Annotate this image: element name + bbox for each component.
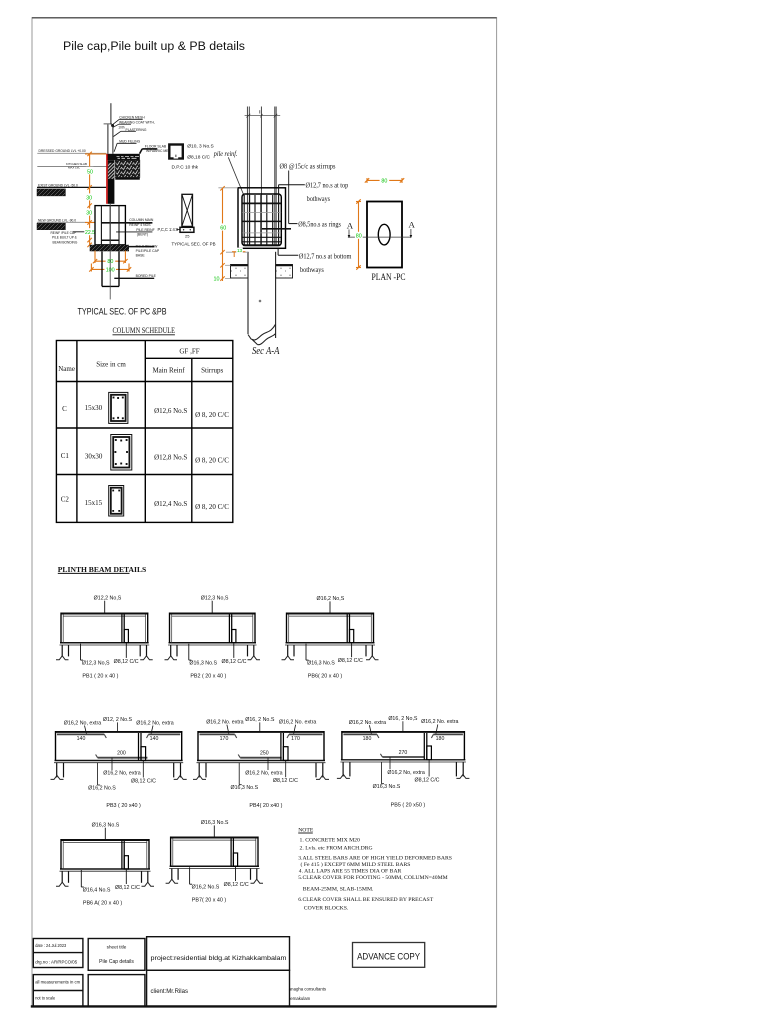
label pile reinf bent: [116, 228, 155, 237]
svg-text:Ø16,2 No, extra: Ø16,2 No, extra: [103, 771, 140, 777]
svg-text:80: 80: [356, 234, 362, 240]
svg-text:Ø8,18 C/C: Ø8,18 C/C: [187, 155, 210, 161]
svg-text:Ø12,7 no.s at top: Ø12,7 no.s at top: [306, 182, 349, 190]
svg-text:Ø16,3 No.S: Ø16,3 No.S: [92, 823, 120, 829]
svg-text:180: 180: [436, 736, 445, 742]
svg-text:BASE: BASE: [136, 253, 146, 257]
column schedule table grid: [56, 341, 232, 523]
svg-text:Pile Cap details: Pile Cap details: [99, 959, 134, 965]
svg-text:PLAN -PC: PLAN -PC: [372, 272, 406, 283]
pile cap top reinf leader: [101, 222, 152, 224]
label top bothways: [279, 182, 349, 204]
plan pc square: [367, 202, 402, 268]
svg-text:Name: Name: [58, 365, 75, 373]
label bored pile: [114, 274, 156, 278]
svg-text:TYPICAL SEC. OF PC &PB: TYPICAL SEC. OF PC &PB: [78, 306, 167, 317]
svg-text:pile reinf.: pile reinf.: [213, 151, 238, 158]
svg-text:D.P.C 10 thk: D.P.C 10 thk: [172, 165, 199, 171]
label wearing coat: [113, 120, 155, 127]
footing wing left: [231, 265, 249, 279]
title block date/drg box: [33, 937, 289, 1007]
label reinf pile cap bonding: [51, 231, 102, 245]
svg-text:COVER BLOCKS.: COVER BLOCKS.: [304, 906, 349, 912]
svg-text:PB2 ( 20 x 40 ): PB2 ( 20 x 40 ): [190, 674, 226, 680]
svg-text:Ø16,2 No.S: Ø16,2 No.S: [192, 885, 220, 891]
svg-text:all measurements in cm: all measurements in cm: [35, 980, 80, 985]
column section sketch C2: [109, 486, 124, 517]
dim 60 (sec A-A): [220, 186, 224, 281]
svg-text:PLINTH BEAM DETAILS: PLINTH BEAM DETAILS: [58, 565, 146, 574]
svg-text:A: A: [409, 220, 416, 230]
svg-text:PB1 ( 20 x 40 ): PB1 ( 20 x 40 ): [82, 674, 118, 680]
svg-text:Ø12,3 No,S: Ø12,3 No,S: [82, 661, 110, 667]
svg-text:Ø12,2 No,S: Ø12,2 No,S: [94, 596, 122, 602]
svg-text:REINF /PILE CAP: REINF /PILE CAP: [51, 231, 77, 235]
svg-text:270: 270: [399, 750, 408, 756]
svg-text:drg.no : AR/RPCO/05: drg.no : AR/RPCO/05: [35, 960, 77, 965]
svg-text:bothways: bothways: [300, 266, 324, 274]
svg-text:22.5: 22.5: [85, 230, 95, 236]
cage vertical bars: [244, 195, 278, 245]
beam PB6: [282, 596, 379, 679]
svg-text:anagha consultants: anagha consultants: [289, 987, 326, 992]
levelling course hatched bar: [90, 245, 129, 252]
svg-text:4. ALL LAPS ARE 55 TIMES DIA O: 4. ALL LAPS ARE 55 TIMES DIA OF BAR: [299, 868, 402, 874]
svg-text:Ø8,5no.s as rings: Ø8,5no.s as rings: [298, 221, 341, 229]
svg-text:Ø8,12 C/C: Ø8,12 C/C: [221, 659, 246, 665]
svg-text:Ø12,6 No.S: Ø12,6 No.S: [154, 407, 187, 415]
svg-text:Ø8,12 C/C: Ø8,12 C/C: [338, 658, 363, 664]
svg-text:60: 60: [220, 225, 226, 231]
svg-text:170: 170: [220, 736, 229, 742]
svg-text:ADVANCE COPY: ADVANCE COPY: [357, 951, 420, 962]
svg-text:Ø16,2 No,S: Ø16,2 No,S: [317, 596, 345, 602]
plan pc pile circle: [378, 224, 390, 245]
beam PB4: [193, 717, 329, 809]
svg-text:A: A: [347, 220, 354, 230]
wall faces: [108, 124, 113, 153]
svg-text:50: 50: [87, 169, 93, 175]
svg-text:project:residential bldg.at Ki: project:residential bldg.at Kizhakkambal…: [151, 955, 287, 962]
svg-text:180: 180: [363, 736, 372, 742]
consultant text: [289, 987, 326, 1001]
column hatched part: [108, 163, 114, 179]
svg-text:FLOOR SLAB: FLOOR SLAB: [145, 145, 167, 149]
dim 13 cage cover: [232, 252, 245, 257]
svg-text:Ø8,12 C/C: Ø8,12 C/C: [414, 778, 439, 784]
brick masonry block: [115, 160, 140, 180]
svg-text:COLUMN SCHEDULE: COLUMN SCHEDULE: [113, 325, 176, 335]
svg-text:bothways: bothways: [307, 195, 330, 203]
svg-text:200: 200: [117, 750, 126, 756]
svg-text:30x30: 30x30: [85, 452, 103, 460]
svg-text:Ø16,2 No. extra: Ø16,2 No. extra: [349, 720, 386, 726]
beam PB2: [165, 596, 261, 680]
svg-text:PB6 A( 20 x 40 ): PB6 A( 20 x 40 ): [83, 901, 122, 907]
label pile reinf: [213, 151, 244, 196]
svg-text:15x30: 15x30: [85, 404, 103, 412]
svg-text:Ø8,12 C/C: Ø8,12 C/C: [224, 882, 249, 888]
svg-text:not to scale: not to scale: [35, 996, 55, 1001]
red reinf line: [106, 154, 108, 204]
svg-text:Ø16,3 No.S: Ø16,3 No.S: [189, 661, 217, 667]
column section sketch C1: [111, 435, 132, 471]
label new ground lvl: [37, 218, 95, 229]
drawing title: [63, 39, 245, 53]
svg-text:PILE/PILE CAP: PILE/PILE CAP: [136, 249, 160, 253]
svg-text:date : 24.Jul.2023: date : 24.Jul.2023: [35, 943, 66, 948]
label stirrups: [280, 162, 336, 223]
svg-text:3.ALL STEEL BARS ARE OF HIGH Y: 3.ALL STEEL BARS ARE OF HIGH YIELD DEFOR…: [298, 856, 452, 862]
svg-text:2. Lvls. etc FROM ARCH.DRG: 2. Lvls. etc FROM ARCH.DRG: [300, 846, 373, 852]
svg-text:client:Mr.Rilas: client:Mr.Rilas: [151, 988, 189, 995]
svg-text:Ø8,12 C/C: Ø8,12 C/C: [273, 778, 298, 784]
svg-text:P,C,C 1:4:8: P,C,C 1:4:8: [158, 227, 179, 232]
svg-text:Ø16,3 No.S: Ø16,3 No.S: [230, 785, 258, 791]
cage horizontal bars: [242, 203, 291, 245]
table header texts: [58, 347, 223, 374]
label kitchen slab lvl: [37, 162, 107, 169]
svg-text:10: 10: [214, 277, 220, 283]
svg-text:BEAM-25MM, SLAB-15MM.: BEAM-25MM, SLAB-15MM.: [303, 887, 374, 893]
svg-text:PB4( 20 x40 ): PB4( 20 x40 ): [249, 803, 282, 809]
pile cap box: [95, 206, 125, 245]
dim 100 horizontal: [89, 264, 131, 272]
row C1: [61, 452, 230, 465]
svg-text:Ø8,12 C/C: Ø8,12 C/C: [114, 659, 139, 665]
dim 80 horizontal: [93, 251, 128, 264]
pile shaft (sec A-A): [248, 252, 276, 340]
svg-text:ernakulam: ernakulam: [290, 996, 310, 1001]
pile break symbol: [253, 324, 276, 345]
svg-text:Ø12, 2 No.S: Ø12, 2 No.S: [103, 717, 133, 723]
vertical dim chain: [85, 152, 106, 247]
svg-text:Ø8 @15c/c as stirrups: Ø8 @15c/c as stirrups: [280, 162, 336, 170]
svg-text:Ø12,4 No.S: Ø12,4 No.S: [154, 500, 187, 508]
bored pile (typical sec): [102, 251, 119, 286]
svg-text:( Fe 415 ) EXCEPT 6MM MILD STE: ( Fe 415 ) EXCEPT 6MM MILD STEEL BARS: [301, 861, 411, 868]
svg-text:Sec A-A: Sec A-A: [252, 345, 280, 357]
svg-text:Ø16,2 No, extra: Ø16,2 No, extra: [387, 770, 424, 776]
svg-text:Ø16,3 No.S: Ø16,3 No.S: [373, 784, 401, 790]
svg-text:170: 170: [291, 736, 300, 742]
svg-text:Ø16,2 No.S: Ø16,2 No.S: [88, 786, 116, 792]
svg-text:Ø16,2 No, extra: Ø16,2 No, extra: [245, 771, 282, 777]
svg-text:Ø16,2 No, extra: Ø16,2 No, extra: [64, 720, 101, 726]
svg-text:C1: C1: [61, 452, 70, 460]
svg-text:Ø16,3 No.S: Ø16,3 No.S: [201, 820, 229, 826]
pile cap bottom reinf: [101, 239, 119, 241]
wall centre line: [104, 103, 115, 127]
advance copy stamp: [353, 943, 425, 968]
typical sec of PB symbol: [180, 194, 194, 232]
svg-text:Ø12,3 No,S: Ø12,3 No,S: [201, 596, 229, 602]
column section sketch C: [109, 392, 128, 423]
label existing ground lvl: [37, 184, 106, 196]
label pcc 148: [158, 227, 181, 232]
beam PB7: [166, 820, 263, 903]
svg-text:(BENT): (BENT): [137, 233, 148, 237]
label dressed ground level: [37, 149, 106, 153]
svg-text:Ø16, 2 No,S: Ø16, 2 No,S: [388, 716, 418, 722]
svg-text:Ø8,12 C/C: Ø8,12 C/C: [115, 885, 140, 891]
title block texts: [35, 943, 134, 1000]
dim 80 top of plan: [365, 178, 404, 183]
beam PB6A: [56, 823, 154, 907]
svg-text:C2: C2: [61, 496, 70, 504]
label floor slab: [140, 145, 174, 154]
beam PB1: [56, 596, 153, 680]
svg-text:BEAM BONDING: BEAM BONDING: [53, 240, 78, 244]
svg-text:140: 140: [150, 736, 159, 742]
label rings: [289, 221, 341, 229]
svg-text:6.CLEAR COVER SHALL BE ENSURED: 6.CLEAR COVER SHALL BE ENSURED BY PRECAS…: [298, 897, 434, 903]
svg-text:Ø16,2 No. extra: Ø16,2 No. extra: [206, 720, 243, 726]
svg-text:Ø16,4 No.S: Ø16,4 No.S: [83, 888, 111, 894]
svg-text:Main Reinf: Main Reinf: [152, 367, 185, 375]
svg-text:Ø12,8 No.S: Ø12,8 No.S: [154, 454, 187, 462]
svg-text:Ø16,2 No. extra: Ø16,2 No. extra: [421, 719, 458, 725]
svg-text:NEW GROUND LVL -90.0: NEW GROUND LVL -90.0: [38, 218, 76, 222]
svg-text:PILE BUILT UP &: PILE BUILT UP &: [52, 236, 78, 240]
svg-text:250: 250: [260, 751, 269, 757]
label plastering: [118, 126, 125, 130]
svg-text:Ø12,7 no.s at bottom: Ø12,7 no.s at bottom: [299, 253, 352, 261]
svg-text:Ø 8, 20 C/C: Ø 8, 20 C/C: [195, 411, 229, 419]
svg-text:PILE REINF: PILE REINF: [136, 228, 154, 232]
pile cap outer box (sec A-A): [238, 188, 286, 249]
column schedule title: [113, 325, 176, 335]
svg-text:PB5 ( 20 x50 ): PB5 ( 20 x50 ): [391, 803, 426, 809]
label mud filling: [114, 140, 141, 152]
column below plinth (black): [108, 160, 115, 204]
bar lap tick line: [245, 110, 281, 117]
beam PB3: [51, 717, 187, 809]
svg-text:Ø8,12 C/C: Ø8,12 C/C: [131, 779, 156, 785]
svg-text:Ø16, 2 No.S: Ø16, 2 No.S: [245, 717, 275, 723]
svg-text:10th: 10th: [118, 126, 125, 130]
svg-text:Ø16,2 No, extra: Ø16,2 No, extra: [136, 720, 173, 726]
svg-text:REINF 4 NOS: REINF 4 NOS: [129, 223, 151, 227]
svg-text:1. CONCRETE MIX M20: 1. CONCRETE MIX M20: [300, 837, 361, 843]
svg-text:80: 80: [381, 179, 387, 185]
plinth beam black strip: [107, 154, 140, 160]
svg-text:TYPICAL SEC. OF PB: TYPICAL SEC. OF PB: [172, 242, 216, 247]
svg-text:DRESSED GROUND LVL +0.00: DRESSED GROUND LVL +0.00: [39, 149, 86, 153]
plinth beam details heading: [58, 565, 146, 574]
dim 80 left of plan: [356, 199, 361, 269]
svg-text:GF ,FF: GF ,FF: [179, 347, 199, 355]
svg-text:Ø 8, 20 C/C: Ø 8, 20 C/C: [195, 457, 229, 465]
label pcc below pile cap: [129, 245, 160, 258]
label column main reinf: [129, 218, 154, 227]
svg-text:PB6( 20 x 40 ): PB6( 20 x 40 ): [308, 674, 343, 680]
svg-text:C: C: [62, 405, 67, 413]
sheet border frame: [31, 18, 497, 1007]
svg-text:Ø16,2 No. extra: Ø16,2 No. extra: [279, 720, 316, 726]
stirrup cage rounded box: [242, 194, 281, 246]
svg-text:COLUMN MAIN: COLUMN MAIN: [129, 218, 154, 222]
svg-text:Ø10, 3 No.S: Ø10, 3 No.S: [187, 144, 213, 150]
svg-text:Pile cap,Pile built up & PB de: Pile cap,Pile built up & PB details: [63, 39, 245, 53]
label chicken mesh: [113, 116, 146, 125]
svg-text:30: 30: [86, 211, 92, 217]
svg-text:Ø16,3 No.S: Ø16,3 No.S: [307, 661, 335, 667]
footing wing right: [276, 265, 293, 279]
svg-text:15x15: 15x15: [85, 499, 103, 507]
svg-text:Stirrups: Stirrups: [201, 367, 223, 375]
label bottom bothways: [278, 248, 352, 274]
svg-text:5.CLEAR COVER FOR FOOTING - 50: 5.CLEAR COVER FOR FOOTING - 50MM, COLUMN…: [298, 875, 448, 881]
svg-text:sheet title: sheet title: [107, 945, 127, 950]
section line A-A: [348, 229, 413, 238]
svg-text:30: 30: [86, 195, 92, 201]
svg-text:140: 140: [77, 736, 86, 742]
svg-text:PB7( 20 x 40 ): PB7( 20 x 40 ): [192, 897, 227, 903]
row C: [62, 404, 229, 419]
svg-text:Size in cm: Size in cm: [96, 361, 126, 369]
DPC detail symbol: [169, 145, 183, 159]
svg-text:PB3 ( 20 x40 ): PB3 ( 20 x40 ): [106, 803, 141, 809]
svg-text:13: 13: [237, 248, 243, 253]
row C2: [61, 496, 230, 512]
notes block: [298, 828, 452, 912]
beam PB5: [337, 716, 470, 809]
svg-text:Ø 8, 20 C/C: Ø 8, 20 C/C: [195, 503, 229, 511]
svg-text:25: 25: [185, 234, 190, 239]
column bars above pile cap: [247, 107, 261, 246]
